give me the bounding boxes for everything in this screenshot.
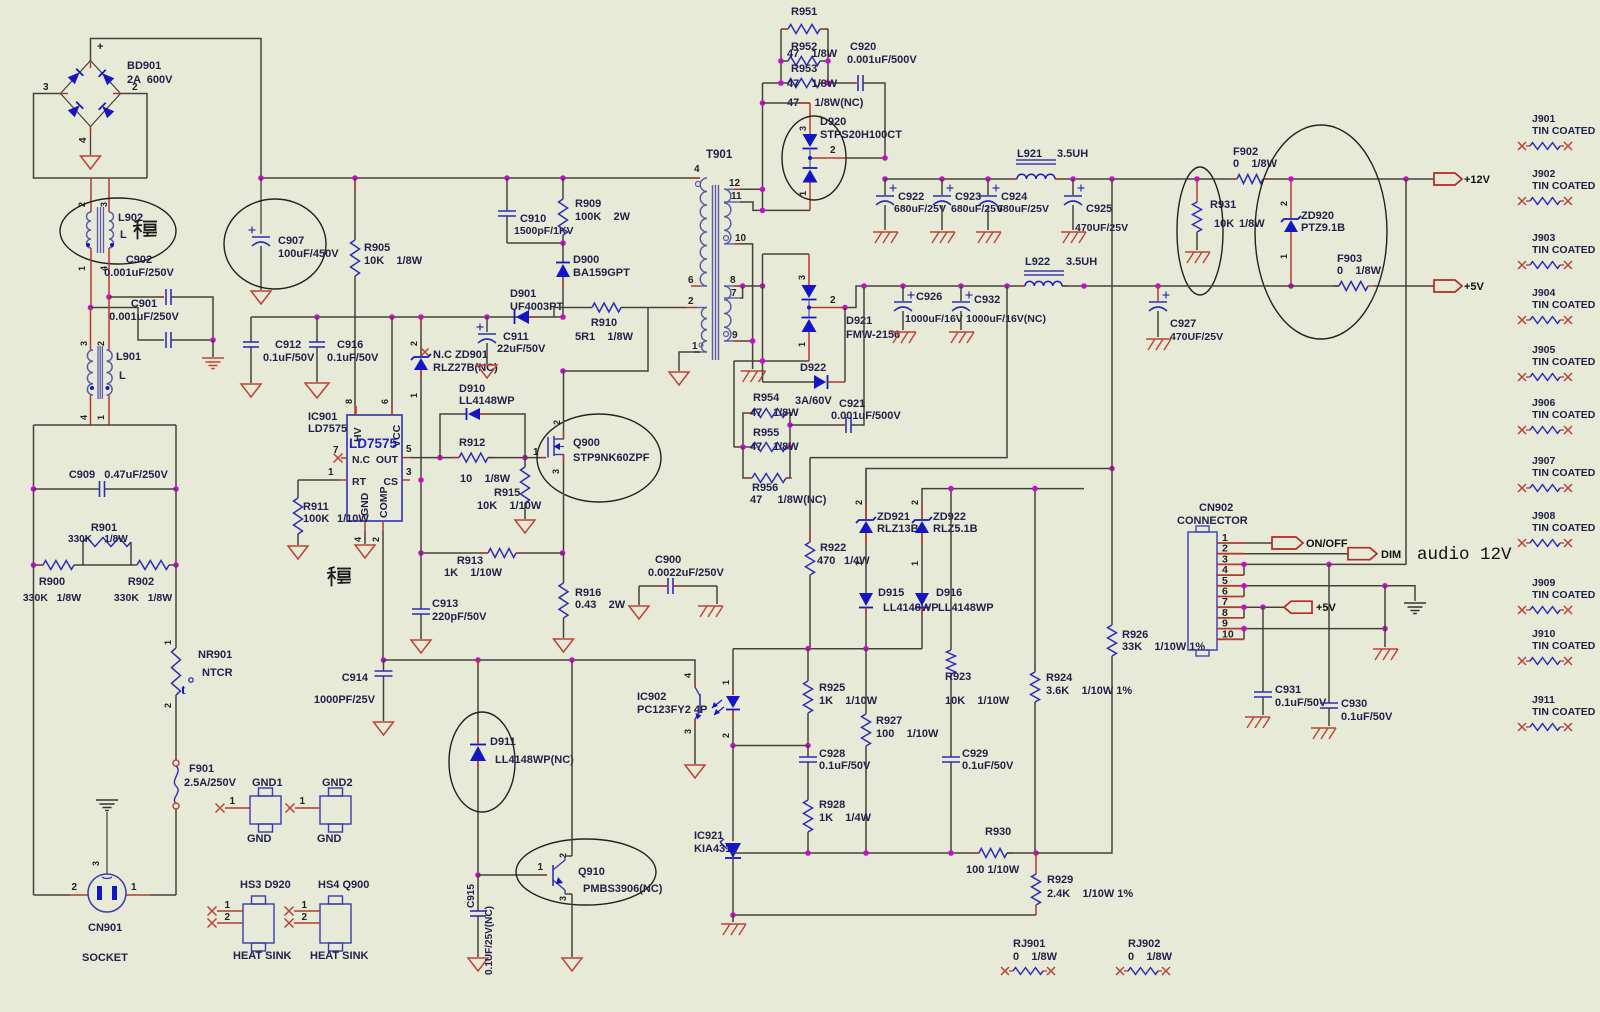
svg-text:ZD922: ZD922 — [933, 511, 966, 523]
svg-text:J911: J911 — [1532, 694, 1555, 706]
svg-text:+5V: +5V — [1316, 602, 1337, 614]
node — [1004, 283, 1010, 289]
wire D920 pin2 — [812, 157, 847, 159]
svg-text:TIN COATED: TIN COATED — [1532, 640, 1596, 652]
wire OUT row — [410, 457, 440, 459]
diode D920 dual — [809, 103, 811, 134]
svg-text:R954: R954 — [753, 392, 780, 404]
wire sec12 rail — [740, 188, 763, 190]
svg-text:330K 1/8W: 330K 1/8W — [114, 592, 172, 604]
resistor R925 — [807, 649, 809, 681]
wire ZD921 net — [866, 469, 1112, 520]
svg-text:1K 1/10W: 1K 1/10W — [819, 695, 878, 707]
svg-text:R929: R929 — [1047, 874, 1073, 886]
capacitor C900 — [639, 585, 667, 587]
wire — [91, 39, 262, 179]
svg-text:1: 1 — [1279, 254, 1289, 259]
capacitor C926 — [900, 283, 906, 289]
svg-text:1/8W: 1/8W — [773, 441, 799, 453]
svg-text:IC901: IC901 — [308, 411, 337, 423]
svg-text:2: 2 — [910, 500, 920, 505]
LED IC902 — [732, 649, 734, 695]
svg-text:R926: R926 — [1122, 629, 1148, 641]
transistor Q910 — [478, 874, 547, 876]
svg-text:CN902: CN902 — [1199, 502, 1233, 514]
capacitor C909 — [34, 488, 100, 490]
pin 7 CN902 — [1217, 606, 1244, 608]
svg-text:2.4K 1/10W 1%: 2.4K 1/10W 1% — [1047, 888, 1133, 900]
svg-text:470UF/25V: 470UF/25V — [1170, 331, 1223, 343]
capacitor C930 — [1328, 564, 1330, 703]
svg-text:J901: J901 — [1532, 113, 1556, 125]
svg-text:GND1: GND1 — [252, 777, 283, 789]
svg-text:2: 2 — [830, 145, 836, 156]
node — [88, 305, 94, 311]
capacitor C902 — [109, 296, 164, 298]
svg-text:D921: D921 — [846, 315, 872, 327]
svg-text:C909: C909 — [69, 469, 95, 481]
wire +12V to DIM net — [1405, 179, 1407, 565]
wire VCC bus — [251, 316, 563, 318]
wire pin5/6 ground net — [1244, 586, 1415, 601]
svg-text:R922: R922 — [820, 542, 846, 554]
node — [1033, 850, 1039, 856]
flag +12V — [1434, 173, 1462, 185]
svg-text:CS: CS — [383, 476, 398, 488]
fuse F901 — [173, 760, 179, 766]
svg-text:0.47uF/250V: 0.47uF/250V — [104, 469, 168, 481]
wire R905 to HV pin — [354, 276, 356, 406]
svg-text:4: 4 — [353, 537, 363, 542]
svg-text:R931: R931 — [1210, 199, 1236, 211]
svg-text:10K: 10K — [1214, 218, 1234, 230]
wire regulation bus — [733, 852, 979, 854]
capacitor C910 — [504, 175, 510, 181]
highlight ellipse C907 — [224, 199, 326, 289]
svg-text:Q910: Q910 — [578, 866, 605, 878]
wire D922 cathode up — [844, 308, 846, 383]
pin 2 CN902 — [1217, 553, 1244, 555]
svg-text:+12V: +12V — [1464, 174, 1491, 186]
earth ground C901/C902 — [212, 340, 214, 357]
svg-text:4: 4 — [79, 415, 89, 420]
svg-text:CONNECTOR: CONNECTOR — [1177, 515, 1248, 527]
wire pin3/4 +12V net — [1244, 563, 1406, 565]
svg-text:1/8W: 1/8W — [773, 407, 799, 419]
svg-text:DIM: DIM — [1381, 549, 1401, 561]
fuse F902 — [1237, 175, 1263, 184]
svg-text:C928: C928 — [819, 748, 845, 760]
svg-text:4: 4 — [683, 673, 693, 678]
svg-text:6: 6 — [688, 275, 694, 286]
choke L901 — [90, 308, 92, 351]
svg-text:10K 1/8W: 10K 1/8W — [364, 255, 423, 267]
svg-text:330K 1/8W: 330K 1/8W — [23, 592, 81, 604]
resistor R926 — [1108, 625, 1117, 656]
svg-text:TIN COATED: TIN COATED — [1532, 244, 1596, 256]
shunt regulator IC921 KIA431 — [732, 746, 734, 842]
svg-text:10: 10 — [735, 233, 747, 244]
svg-text:R923: R923 — [945, 671, 971, 683]
svg-text:1: 1 — [163, 640, 173, 645]
svg-text:3.5UH: 3.5UH — [1066, 256, 1097, 268]
wire — [175, 809, 177, 895]
capacitor C901 — [91, 308, 165, 341]
diode D916 — [915, 593, 929, 606]
capacitor C913 — [420, 553, 422, 609]
earth ground CN901 — [96, 799, 118, 801]
capacitor C922 — [884, 179, 886, 195]
ground C900 left — [638, 586, 640, 605]
highlight ellipse Q910 — [516, 839, 656, 905]
svg-text:1/10W: 1/10W — [337, 513, 369, 525]
pin 5 OUT — [402, 457, 410, 459]
svg-text:3: 3 — [798, 126, 808, 131]
svg-text:STPS20H100CT: STPS20H100CT — [820, 129, 902, 141]
svg-text:2: 2 — [830, 295, 836, 306]
svg-text:D910: D910 — [459, 383, 485, 395]
svg-text:3.6K 1/10W 1%: 3.6K 1/10W 1% — [1046, 685, 1132, 697]
svg-text:47: 47 — [750, 441, 762, 453]
zener diode ZD922 — [921, 505, 923, 519]
svg-text:RLZ13B: RLZ13B — [877, 523, 919, 535]
svg-text:J904: J904 — [1532, 287, 1556, 299]
svg-text:1000PF/25V: 1000PF/25V — [314, 694, 376, 706]
svg-text:R956: R956 — [752, 482, 778, 494]
svg-text:BD901: BD901 — [127, 60, 161, 72]
svg-text:NR901: NR901 — [198, 649, 232, 661]
wire R926 column — [1036, 656, 1112, 853]
node — [437, 455, 443, 461]
svg-text:L902: L902 — [118, 212, 143, 224]
resistor R956 — [743, 447, 752, 478]
svg-text:C900: C900 — [655, 554, 681, 566]
resistor R955 — [734, 446, 752, 448]
wire pin1 to ON/OFF — [1244, 542, 1272, 544]
resistor R913 — [421, 552, 488, 554]
wire D921 pin2 to 5V bus — [811, 307, 845, 309]
svg-text:7: 7 — [333, 445, 339, 456]
svg-text:RT: RT — [352, 476, 367, 488]
resistor R927 — [865, 649, 867, 714]
svg-text:0.1uF/50V: 0.1uF/50V — [1275, 697, 1327, 709]
svg-text:C929: C929 — [962, 748, 988, 760]
resistor R912 — [459, 453, 488, 462]
svg-text:2: 2 — [688, 296, 694, 307]
svg-text:3.5UH: 3.5UH — [1057, 148, 1088, 160]
svg-text:1: 1 — [692, 341, 698, 352]
svg-text:3: 3 — [551, 469, 561, 474]
ground T901 pin1 — [679, 352, 700, 371]
svg-text:5: 5 — [406, 444, 412, 455]
wire — [121, 94, 148, 179]
wire pin10 to ground — [740, 244, 753, 369]
resistor R901 — [82, 542, 84, 565]
flag ON/OFF — [1272, 537, 1303, 549]
resistor R931 — [1194, 176, 1200, 182]
capacitor C916 — [314, 314, 320, 320]
svg-text:TIN COATED: TIN COATED — [1532, 299, 1596, 311]
highlight ellipse L902 — [60, 198, 176, 264]
ground IC902 pin3 — [685, 765, 705, 778]
bridge rectifier BD901 — [61, 61, 121, 127]
svg-text:2: 2 — [301, 912, 307, 923]
svg-text:100 1/10W: 100 1/10W — [876, 728, 939, 740]
svg-text:0 1/8W: 0 1/8W — [1337, 265, 1382, 277]
capacitor C924 — [985, 176, 991, 182]
svg-text:T901: T901 — [706, 149, 733, 161]
resistor R922 — [809, 458, 811, 542]
svg-text:C926: C926 — [916, 291, 942, 303]
svg-text:RLZ27B(NC): RLZ27B(NC) — [433, 362, 498, 374]
svg-text:R927: R927 — [876, 715, 902, 727]
svg-text:33K 1/10W 1%: 33K 1/10W 1% — [1122, 641, 1205, 653]
svg-text:N.C: N.C — [352, 454, 371, 466]
svg-text:0.001uF/250V: 0.001uF/250V — [104, 267, 174, 279]
resistor R909 — [560, 175, 566, 181]
wire comp bus — [384, 660, 696, 687]
svg-text:R928: R928 — [819, 799, 845, 811]
svg-text:PTZ9.1B: PTZ9.1B — [1301, 222, 1345, 234]
wire — [90, 395, 92, 425]
svg-text:Q900: Q900 — [573, 437, 600, 449]
svg-text:HS3 D920: HS3 D920 — [240, 879, 291, 891]
svg-text:3A/60V: 3A/60V — [795, 395, 832, 407]
wire VCC to pin6 — [389, 314, 395, 320]
svg-text:2: 2 — [854, 500, 864, 505]
svg-text:0.001uF/500V: 0.001uF/500V — [831, 410, 901, 422]
svg-text:C931: C931 — [1275, 684, 1301, 696]
wire source — [563, 455, 565, 554]
svg-text:J909: J909 — [1532, 577, 1556, 589]
svg-text:0.43 2W: 0.43 2W — [575, 599, 626, 611]
svg-text:1: 1 — [328, 467, 334, 478]
svg-text:R951: R951 — [791, 6, 817, 18]
node — [418, 550, 424, 556]
node — [861, 283, 867, 289]
resistor R924 — [1034, 489, 1036, 672]
wire +12V bus — [885, 178, 1017, 180]
svg-text:J903: J903 — [1532, 232, 1556, 244]
svg-text:RLZ5.1B: RLZ5.1B — [933, 523, 978, 535]
pin 6 CN902 — [1217, 596, 1244, 598]
resistor R929 — [1035, 853, 1037, 874]
ground IC921 — [732, 915, 734, 922]
pin 6 — [391, 406, 393, 415]
wire COMP column — [382, 531, 384, 660]
resistor R930 — [979, 849, 1007, 858]
resistor R915 — [524, 458, 526, 467]
transistor Q900 MOSFET — [547, 437, 549, 458]
svg-text:2: 2 — [721, 733, 731, 738]
svg-text:J907: J907 — [1532, 455, 1556, 467]
svg-text:L: L — [120, 229, 127, 241]
svg-text:IC921: IC921 — [694, 830, 723, 842]
svg-text:7: 7 — [731, 288, 737, 299]
wire — [175, 695, 177, 760]
resistor R900 — [34, 564, 44, 566]
pin 2 COMP — [382, 521, 384, 531]
wire bottom bus — [733, 914, 1036, 916]
svg-text:47 1/8W(NC): 47 1/8W(NC) — [750, 494, 827, 506]
zener diode ZD921 — [865, 469, 867, 520]
svg-text:2.5A/250V: 2.5A/250V — [184, 777, 237, 789]
svg-text:R905: R905 — [364, 242, 390, 254]
svg-text:C921: C921 — [839, 398, 865, 410]
svg-text:TIN COATED: TIN COATED — [1532, 706, 1596, 718]
svg-text:LD7575: LD7575 — [308, 423, 347, 435]
node — [258, 175, 264, 181]
svg-text:TIN COATED: TIN COATED — [1532, 125, 1596, 137]
wire — [34, 94, 148, 179]
wire D920 pin3 row — [763, 102, 811, 104]
svg-text:2: 2 — [1279, 201, 1289, 206]
wire ZD922 net — [922, 489, 1084, 519]
wire — [83, 564, 137, 566]
ground R915 — [515, 520, 535, 533]
pin 8 — [355, 406, 357, 415]
wire R922 to 5V — [810, 286, 1007, 458]
highlight ellipse R931 — [1177, 167, 1223, 295]
resistor R923 — [950, 489, 952, 650]
node — [31, 486, 37, 492]
pin 3 CS — [402, 479, 410, 481]
svg-text:R916: R916 — [575, 587, 601, 599]
svg-text:470: 470 — [817, 555, 835, 567]
wire gate — [525, 457, 546, 459]
svg-text:330K: 330K — [68, 534, 93, 545]
node — [475, 657, 481, 663]
pin 9 CN902 — [1217, 628, 1244, 630]
svg-text:1: 1 — [299, 796, 305, 807]
svg-text:R955: R955 — [753, 427, 779, 439]
node — [842, 305, 848, 311]
svg-text:2: 2 — [371, 537, 381, 542]
svg-text:1: 1 — [224, 900, 230, 911]
common-mode choke L902 — [90, 178, 92, 212]
svg-text:220pF/50V: 220pF/50V — [432, 611, 487, 623]
node — [106, 294, 112, 300]
svg-text:GND: GND — [247, 833, 272, 845]
pin 1 RT — [340, 479, 347, 481]
resistor R910 — [592, 303, 621, 312]
svg-text:47 1/8W: 47 1/8W — [787, 78, 838, 90]
capacitor C914 — [383, 660, 385, 671]
pin 8 CN902 — [1217, 617, 1244, 619]
node — [750, 338, 756, 344]
svg-text:ZD921: ZD921 — [877, 511, 910, 523]
svg-text:C910: C910 — [520, 213, 546, 225]
svg-text:0.1uF/50V: 0.1uF/50V — [327, 352, 379, 364]
node — [805, 646, 811, 652]
svg-text:LL4148WP: LL4148WP — [938, 602, 994, 614]
node — [418, 477, 424, 483]
svg-text:TIN COATED: TIN COATED — [1532, 409, 1596, 421]
svg-text:1: 1 — [797, 342, 807, 347]
svg-text:L901: L901 — [116, 351, 141, 363]
svg-text:1: 1 — [301, 900, 307, 911]
wire sec 8/7 rail — [740, 285, 763, 287]
svg-text:L921: L921 — [1017, 148, 1042, 160]
diode D915 — [859, 593, 873, 606]
svg-text:2: 2 — [96, 341, 106, 346]
wire gnd column — [1384, 586, 1386, 647]
svg-text:C927: C927 — [1170, 318, 1196, 330]
ground C900 right — [716, 586, 718, 604]
svg-text:3: 3 — [79, 341, 89, 346]
svg-text:GND2: GND2 — [322, 777, 353, 789]
capacitor C912 — [250, 317, 252, 342]
svg-text:IC902: IC902 — [637, 691, 666, 703]
svg-text:10: 10 — [1222, 628, 1234, 640]
svg-text:0.1uF/50V: 0.1uF/50V — [263, 352, 315, 364]
diode D901 — [516, 310, 529, 324]
svg-text:0.001uF/500V: 0.001uF/500V — [847, 54, 917, 66]
svg-text:D901: D901 — [510, 288, 536, 300]
wire pin7 jog — [740, 286, 743, 298]
svg-text:L: L — [119, 370, 126, 382]
svg-text:100K 2W: 100K 2W — [575, 211, 631, 223]
socket CN901 — [88, 874, 126, 912]
svg-text:1: 1 — [77, 266, 87, 271]
wire opto bus — [733, 648, 922, 650]
svg-text:2: 2 — [132, 82, 138, 93]
svg-text:R912: R912 — [459, 437, 485, 449]
svg-text:1: 1 — [96, 415, 106, 420]
op-amp U IC901 LD7575 box — [347, 415, 402, 521]
svg-text:10K 1/10W: 10K 1/10W — [477, 500, 542, 512]
svg-text:1K 1/10W: 1K 1/10W — [444, 567, 503, 579]
svg-text:1000uF/16V(NC): 1000uF/16V(NC) — [966, 313, 1046, 325]
svg-text:1: 1 — [409, 393, 419, 398]
wire — [33, 565, 35, 895]
svg-text:HEAT SINK: HEAT SINK — [233, 950, 292, 962]
svg-text:N.C ZD901: N.C ZD901 — [433, 349, 488, 361]
pin 7 N.C — [341, 457, 347, 459]
node — [31, 562, 37, 568]
svg-text:100 1/10W: 100 1/10W — [966, 864, 1020, 876]
svg-text:470UF/25V: 470UF/25V — [1075, 222, 1128, 234]
node — [210, 337, 216, 343]
ground T901 pin10 — [741, 370, 766, 372]
wire drain — [563, 371, 565, 439]
flag +5V output — [1434, 280, 1462, 292]
svg-text:680uF/25V: 680uF/25V — [894, 203, 946, 215]
svg-text:HS4 Q900: HS4 Q900 — [318, 879, 369, 891]
svg-text:8: 8 — [730, 275, 736, 286]
wire Q910 collector — [564, 856, 566, 860]
hanzi mark 2 — [327, 567, 351, 586]
node — [730, 912, 736, 918]
capacitor C929 — [942, 756, 960, 758]
diode D900 — [562, 243, 564, 263]
wire D921 anode rail — [762, 254, 764, 382]
capacitor C927 — [1155, 283, 1161, 289]
svg-text:3: 3 — [683, 729, 693, 734]
svg-text:F903: F903 — [1337, 253, 1362, 265]
wire — [563, 308, 648, 372]
ground CN902 gnd — [1373, 648, 1398, 650]
svg-text:TIN COATED: TIN COATED — [1532, 180, 1596, 192]
resistor R953 — [763, 82, 789, 84]
svg-text:1: 1 — [229, 796, 235, 807]
wire HV bus — [261, 177, 700, 179]
svg-text:1K 1/4W: 1K 1/4W — [819, 812, 872, 824]
svg-text:R953: R953 — [791, 63, 817, 75]
resistor R951 — [780, 29, 782, 83]
svg-text:C916: C916 — [337, 339, 363, 351]
node — [173, 562, 179, 568]
